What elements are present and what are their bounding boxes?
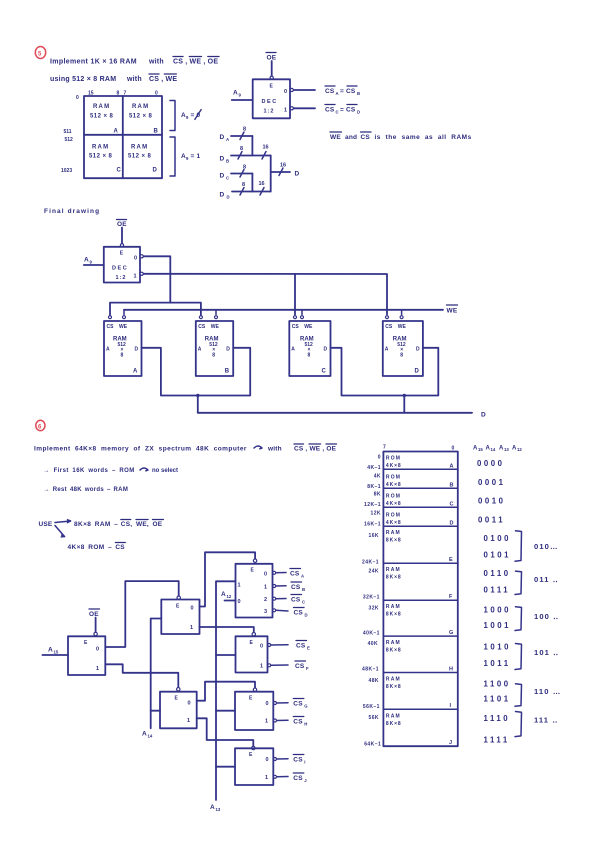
- svg-text:= CS: = CS: [340, 107, 356, 114]
- svg-text:48K–1: 48K–1: [362, 667, 379, 673]
- note WE and CS same for all RAMs: [330, 132, 472, 141]
- svg-text:9: 9: [90, 260, 93, 265]
- svg-text:110 …: 110 …: [534, 687, 561, 696]
- svg-text:1111: 1111: [484, 736, 510, 745]
- svg-text:A: A: [198, 347, 202, 353]
- svg-text:0: 0: [266, 757, 269, 763]
- svg-text:1010: 1010: [484, 643, 512, 652]
- svg-text:4K–1: 4K–1: [367, 465, 381, 471]
- svg-text:with: with: [148, 59, 164, 66]
- svg-text:RAM: RAM: [386, 567, 401, 573]
- svg-text:D E C: D E C: [262, 99, 277, 105]
- svg-text:D: D: [220, 156, 225, 163]
- svg-text:A: A: [48, 647, 53, 654]
- svg-text:WE: WE: [330, 134, 341, 141]
- svg-text:CS: CS: [296, 643, 306, 650]
- node DD input 8-bit: [220, 181, 271, 200]
- svg-text:C: C: [226, 176, 229, 181]
- ROM bank A row: [386, 456, 454, 470]
- svg-text:A: A: [142, 731, 147, 738]
- svg-text:8K×8: 8K×8: [386, 612, 402, 618]
- svg-text:F: F: [306, 666, 309, 671]
- svg-text:E: E: [270, 84, 274, 90]
- svg-text:4K×8: 4K×8: [386, 482, 402, 488]
- svg-text:B: B: [357, 91, 360, 96]
- decoder U8 CS G H: [235, 692, 273, 730]
- OE label over decoder U1: [266, 53, 277, 62]
- use line 8Kx8 RAM: [74, 520, 163, 529]
- problem number 6 badge: [36, 420, 45, 430]
- svg-text:512 × 8: 512 × 8: [89, 154, 113, 160]
- enable bubble U3: [94, 632, 97, 635]
- brace A9=0 rows: [170, 101, 201, 131]
- svg-text:1100: 1100: [484, 680, 511, 689]
- svg-text:1:2: 1:2: [116, 275, 127, 281]
- output bus D 16-bit: [271, 163, 300, 178]
- svg-text:CS: CS: [293, 757, 303, 764]
- RAM chip D 512x8: [383, 321, 423, 376]
- RAM chip C 512x8: [289, 321, 330, 376]
- svg-text:8K×8 RAM –: 8K×8 RAM –: [74, 521, 118, 528]
- svg-text:512 × 8: 512 × 8: [90, 114, 114, 120]
- net CSH: [293, 717, 307, 727]
- ROM bank D row: [386, 513, 454, 527]
- svg-text:0011: 0011: [478, 516, 505, 525]
- ROM bank C row: [386, 494, 454, 508]
- net CSG: [293, 699, 308, 709]
- svg-text:0: 0: [76, 95, 79, 101]
- svg-text:A: A: [385, 347, 389, 353]
- net CSC: [291, 595, 305, 605]
- svg-text:F: F: [449, 594, 453, 600]
- svg-text:1: 1: [260, 664, 263, 670]
- svg-text:56K–1: 56K–1: [363, 704, 380, 710]
- svg-text:D: D: [135, 347, 139, 353]
- bracket pair J: [515, 712, 522, 737]
- select code column: [477, 459, 511, 745]
- svg-text:1: 1: [265, 775, 268, 781]
- svg-text:WE: WE: [398, 324, 407, 330]
- svg-text:4K×8: 4K×8: [386, 501, 402, 507]
- svg-text:WE: WE: [304, 324, 313, 330]
- svg-text:0000: 0000: [477, 459, 505, 468]
- svg-text:101 ‥: 101 ‥: [534, 648, 559, 657]
- svg-text:24K: 24K: [368, 569, 379, 575]
- pin bubbles RAM A: [109, 316, 126, 319]
- svg-text:1: 1: [187, 718, 190, 724]
- svg-text:E: E: [251, 568, 255, 574]
- svg-text:9: 9: [186, 156, 189, 161]
- svg-text:B: B: [302, 587, 305, 592]
- wire U4 out0 to U6 enable: [200, 552, 256, 606]
- svg-text:RAM: RAM: [386, 677, 401, 683]
- svg-text:0100: 0100: [484, 534, 512, 543]
- svg-text:RAM: RAM: [92, 145, 109, 151]
- enable bubble U1: [270, 76, 273, 79]
- svg-text:CS: CS: [294, 610, 304, 617]
- svg-text:512 × 8: 512 × 8: [129, 114, 153, 120]
- svg-text:G: G: [304, 704, 308, 709]
- node DA input 8-bit: [220, 127, 253, 143]
- svg-text:7: 7: [383, 445, 386, 451]
- svg-text:A: A: [450, 464, 454, 470]
- svg-text:4K×8 ROM –: 4K×8 ROM –: [68, 544, 113, 551]
- wire U3 out0 to U4 enable: [105, 581, 178, 647]
- svg-text:A: A: [221, 591, 226, 598]
- wire DC corner down: [251, 174, 253, 192]
- svg-text:CS: CS: [291, 597, 301, 604]
- svg-text:WE: WE: [119, 324, 128, 330]
- svg-text:C: C: [117, 168, 122, 174]
- svg-text:= CS: = CS: [340, 88, 356, 95]
- svg-text:1001: 1001: [484, 621, 512, 630]
- svg-text:with: with: [267, 446, 282, 453]
- wire U5 out1 to U9 enable: [197, 718, 254, 746]
- net CSB: [291, 582, 305, 592]
- A13 net vertical: [216, 581, 236, 800]
- decoder U4 A14 upper 1:2: [161, 600, 199, 635]
- svg-text:RAM: RAM: [131, 145, 148, 151]
- RAM cell C 512x8: [89, 145, 122, 174]
- svg-text:8: 8: [243, 165, 246, 171]
- svg-text:4K×8: 4K×8: [386, 463, 402, 469]
- svg-text:12K: 12K: [370, 511, 381, 517]
- wire OE to U3: [95, 618, 97, 633]
- svg-text:8: 8: [117, 91, 120, 97]
- net CSA: [290, 569, 304, 579]
- svg-text:14: 14: [148, 734, 153, 739]
- RAM bank F row: [386, 567, 453, 600]
- svg-text:D: D: [415, 369, 420, 375]
- bracket pair G: [515, 607, 522, 631]
- svg-text:E: E: [307, 646, 310, 651]
- svg-text:0: 0: [260, 644, 263, 650]
- svg-text:C: C: [336, 110, 339, 115]
- memory map outline: [383, 452, 457, 747]
- svg-text:CS: CS: [361, 134, 371, 141]
- enable bubble U2: [120, 244, 123, 247]
- U6 outputs bubbles and wires: [273, 571, 288, 612]
- svg-text:B: B: [225, 369, 230, 375]
- svg-text:8: 8: [212, 353, 215, 359]
- svg-text:Final drawing: Final drawing: [44, 208, 100, 215]
- svg-text:CS: CS: [295, 663, 305, 670]
- svg-text:8K×8: 8K×8: [386, 538, 402, 544]
- svg-text:CS: CS: [293, 701, 303, 708]
- svg-text:1101: 1101: [484, 695, 511, 704]
- svg-text:RAM: RAM: [93, 104, 110, 110]
- svg-text:56K: 56K: [368, 715, 379, 721]
- svg-text:13: 13: [216, 807, 221, 812]
- svg-text:0111: 0111: [484, 586, 511, 595]
- svg-text:1: 1: [96, 666, 99, 672]
- pin bubbles RAM C: [294, 316, 304, 319]
- svg-text:J: J: [449, 740, 452, 746]
- svg-text:3: 3: [264, 609, 267, 615]
- svg-text:14: 14: [491, 447, 496, 452]
- ROM bank B row: [386, 475, 454, 489]
- svg-text:0: 0: [134, 256, 137, 262]
- svg-text:Implement 1K × 16 RAM: Implement 1K × 16 RAM: [50, 59, 137, 66]
- svg-text:0: 0: [238, 599, 241, 605]
- svg-text:A: A: [114, 129, 119, 135]
- svg-text:H: H: [304, 722, 307, 727]
- enable bubble U5: [177, 688, 180, 691]
- heading line 1: Implement 1K x 16 RAM with CS WE OE: [50, 57, 219, 66]
- U7 outputs: [268, 644, 288, 667]
- svg-text:1: 1: [190, 625, 193, 631]
- svg-text:WE: WE: [211, 324, 220, 330]
- RAM cell B 512x8: [129, 104, 159, 135]
- svg-text:B: B: [154, 129, 159, 135]
- svg-text:12: 12: [517, 447, 522, 452]
- net CSD: [294, 608, 308, 618]
- svg-text:0: 0: [266, 701, 269, 707]
- svg-text:B: B: [450, 483, 454, 489]
- CS bus for RAM A and B: [110, 303, 201, 315]
- net CSI: [293, 755, 305, 765]
- net CSE: [296, 641, 310, 651]
- svg-text:ROM: ROM: [386, 475, 401, 481]
- heading implement 64Kx8 memory of ZX spectrum: [34, 444, 337, 453]
- svg-text:RAM: RAM: [386, 640, 401, 646]
- svg-text:0: 0: [96, 647, 99, 653]
- decoder U2 1:2: [104, 247, 140, 283]
- svg-text:and: and: [345, 134, 357, 141]
- svg-text:USE: USE: [39, 521, 53, 528]
- svg-text:512: 512: [65, 137, 74, 143]
- svg-text:D: D: [153, 168, 158, 174]
- svg-text:4K×8: 4K×8: [386, 520, 402, 526]
- input A9: [232, 90, 253, 101]
- svg-text:0: 0: [188, 701, 191, 707]
- node DB input 8-bit: [220, 145, 271, 164]
- svg-text:9: 9: [239, 93, 242, 98]
- svg-text:1: 1: [264, 585, 267, 591]
- RAM bank G row: [386, 604, 453, 636]
- svg-text:A: A: [233, 90, 238, 97]
- data wire RAM A to join: [142, 348, 251, 396]
- svg-text:E: E: [249, 752, 253, 758]
- wire OE to U1 enable: [271, 61, 273, 76]
- input A9 to U2: [84, 257, 104, 266]
- svg-text:→ Rest 48K words – RAM: → Rest 48K words – RAM: [44, 487, 129, 493]
- decoder U5 A14 lower 1:2: [160, 692, 197, 729]
- svg-text:64K–1: 64K–1: [364, 742, 381, 748]
- svg-text:8: 8: [243, 127, 246, 133]
- svg-text:12K–1: 12K–1: [364, 502, 381, 508]
- svg-text:= 1: = 1: [191, 153, 201, 160]
- svg-text:CS: CS: [325, 107, 335, 114]
- svg-text:A: A: [133, 369, 138, 375]
- svg-text:6: 6: [38, 425, 42, 431]
- svg-text:32K–1: 32K–1: [363, 595, 380, 601]
- svg-text:0010: 0010: [478, 497, 506, 506]
- svg-text:D: D: [324, 347, 328, 353]
- svg-text:E: E: [449, 557, 453, 563]
- U1 output 1 bubble and wire: [290, 107, 315, 110]
- svg-text:0001: 0001: [478, 478, 506, 487]
- label CSC = CSD: [325, 105, 360, 115]
- bracket pair E: [515, 531, 522, 561]
- svg-text:D: D: [227, 195, 230, 200]
- svg-text:16: 16: [259, 181, 265, 187]
- svg-text:D: D: [305, 613, 308, 618]
- svg-text:A: A: [84, 257, 89, 264]
- wire U5 out0 to U8 enable: [197, 682, 255, 701]
- svg-text:CS: CS: [198, 324, 206, 330]
- svg-text:1: 1: [265, 719, 268, 725]
- svg-text:no select: no select: [152, 468, 178, 474]
- svg-text:CS: CS: [385, 324, 393, 330]
- svg-text:Implement 64K×8 memory of: Implement 64K×8 memory of ZX spectrum 48…: [34, 446, 247, 453]
- svg-text:1000: 1000: [484, 606, 512, 615]
- drop CD to D bus: [403, 396, 405, 413]
- svg-text:0101: 0101: [484, 551, 512, 560]
- svg-text:13: 13: [504, 447, 509, 452]
- svg-text:4K: 4K: [374, 474, 381, 480]
- svg-text:WE,: WE,: [136, 521, 149, 528]
- U2 output 1 wire to CS bus CD: [140, 272, 387, 314]
- svg-text:1: 1: [134, 274, 137, 280]
- svg-text:J: J: [304, 778, 307, 783]
- svg-text:CS: CS: [291, 584, 301, 591]
- decoder U6 2:4 ROM select: [236, 564, 273, 618]
- WE net label: [447, 305, 458, 315]
- svg-text:I: I: [450, 703, 452, 709]
- svg-text:8: 8: [242, 182, 245, 188]
- svg-text:A: A: [226, 137, 229, 142]
- svg-text:using 512 × 8 RAM: using 512 × 8 RAM: [50, 76, 116, 83]
- junction dot AB: [196, 394, 199, 397]
- enable bubble U6: [253, 559, 256, 562]
- svg-text:48K: 48K: [368, 678, 379, 684]
- svg-text:8: 8: [400, 353, 403, 359]
- pin bubbles RAM D: [386, 316, 404, 319]
- svg-text:40K: 40K: [368, 641, 379, 647]
- svg-text:A: A: [336, 91, 339, 96]
- svg-text:OE: OE: [153, 521, 163, 528]
- U1 output 0 bubble and wire: [290, 88, 315, 91]
- bracket pair F: [515, 571, 522, 594]
- svg-text:1011: 1011: [484, 659, 511, 668]
- svg-text:D: D: [450, 521, 454, 527]
- svg-text:D: D: [220, 192, 225, 199]
- data bus D: [198, 412, 486, 419]
- svg-text:D: D: [295, 171, 300, 178]
- svg-text:A: A: [301, 574, 304, 579]
- data bit labels 7 0: [383, 445, 455, 452]
- svg-text:E: E: [176, 604, 180, 610]
- svg-text:16: 16: [280, 163, 286, 169]
- enable bubble U8: [253, 688, 256, 691]
- svg-text:8K–1: 8K–1: [367, 484, 381, 490]
- svg-text:CS: CS: [292, 324, 300, 330]
- input A15: [42, 647, 68, 656]
- svg-text:511: 511: [64, 129, 72, 135]
- U9 outputs: [274, 758, 289, 779]
- label A14: [142, 731, 153, 739]
- svg-text:1: 1: [284, 108, 287, 114]
- RAM cell D 512x8: [128, 145, 158, 174]
- svg-text:RAM: RAM: [386, 530, 401, 536]
- svg-text:15: 15: [54, 650, 59, 655]
- svg-text:→ First 16K words – ROM: → First 16K words – ROM: [44, 468, 135, 474]
- svg-text:RAM: RAM: [386, 714, 401, 720]
- svg-text:A: A: [291, 347, 295, 353]
- RAM bank J row: [386, 714, 452, 747]
- svg-text:8K: 8K: [374, 492, 381, 498]
- svg-text:D: D: [220, 173, 225, 180]
- svg-text:RAM: RAM: [132, 104, 149, 110]
- heading line 2: using 512 x 8 RAM with CS WE: [50, 74, 177, 83]
- svg-text:12: 12: [227, 594, 232, 599]
- svg-text:2: 2: [264, 597, 267, 603]
- svg-text:E: E: [250, 640, 254, 646]
- svg-text:C: C: [322, 369, 327, 375]
- junction dot CD: [403, 394, 406, 397]
- bracket pair I: [515, 684, 522, 707]
- svg-text:9: 9: [186, 115, 189, 120]
- WE stubs to RAM pins: [124, 310, 402, 315]
- svg-text:C: C: [302, 600, 305, 605]
- OE label over decoder U2: [117, 220, 128, 229]
- svg-text:16K: 16K: [368, 533, 379, 539]
- svg-text:H: H: [449, 667, 453, 673]
- svg-text:16: 16: [263, 145, 269, 151]
- svg-text:D: D: [481, 412, 486, 419]
- svg-text:ROM: ROM: [386, 494, 401, 500]
- svg-text:8: 8: [121, 353, 124, 359]
- decoder U7 CS E F: [236, 636, 268, 672]
- net CSF: [295, 661, 309, 671]
- svg-text:1: 1: [238, 583, 241, 589]
- RAM chip B 512x8: [196, 321, 233, 376]
- enable bubble U4: [177, 596, 180, 599]
- bus join vertical: [270, 156, 272, 192]
- svg-text:8K×8: 8K×8: [386, 575, 402, 581]
- svg-text:CS: CS: [293, 775, 303, 782]
- svg-text:CS , WE , OE: CS , WE , OE: [173, 59, 218, 66]
- svg-text:E: E: [84, 640, 88, 646]
- WE bus: [124, 309, 443, 311]
- svg-text:D: D: [416, 347, 420, 353]
- svg-text:ROM: ROM: [386, 456, 401, 462]
- RAM cell A 512x8: [90, 104, 119, 135]
- svg-text:40K–1: 40K–1: [363, 631, 380, 637]
- svg-text:8: 8: [308, 353, 311, 359]
- address labels around array: [61, 91, 158, 175]
- pin bubbles RAM B: [199, 316, 217, 319]
- svg-text:E: E: [249, 696, 253, 702]
- brace A9=1 rows: [170, 137, 201, 176]
- svg-text:B: B: [226, 159, 229, 164]
- wire U4 out1 to U7 enable: [200, 627, 254, 633]
- RAM chip A 512x8: [104, 321, 142, 376]
- svg-text:32K: 32K: [368, 606, 379, 612]
- svg-text:CS: CS: [107, 324, 115, 330]
- svg-text:8K×8: 8K×8: [386, 648, 402, 654]
- svg-text:A: A: [106, 347, 110, 353]
- A14 net vertical: [151, 619, 162, 729]
- svg-text:ROM: ROM: [386, 513, 401, 519]
- svg-text:WE: WE: [447, 308, 458, 315]
- label CSA = CSB: [325, 86, 360, 96]
- label A13: [210, 804, 221, 812]
- svg-text:with: with: [126, 76, 142, 83]
- svg-text:8: 8: [240, 146, 243, 152]
- svg-text:0: 0: [378, 455, 381, 461]
